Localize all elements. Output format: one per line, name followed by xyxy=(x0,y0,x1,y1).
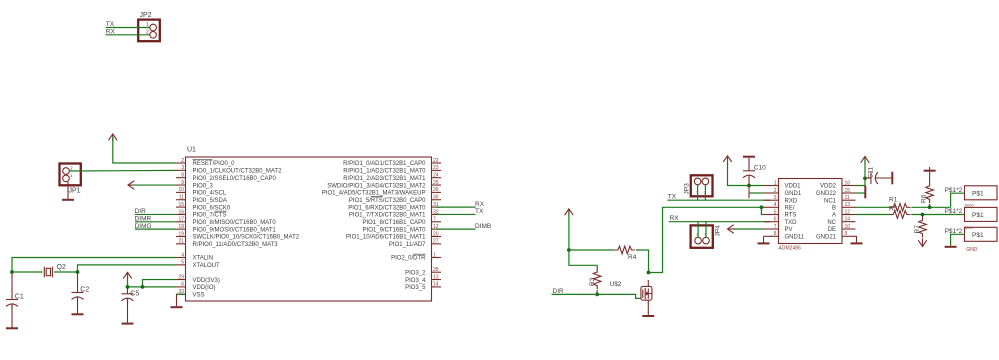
svg-text:JP2: JP2 xyxy=(140,12,152,19)
svg-text:XTALOUT: XTALOUT xyxy=(193,263,221,269)
svg-text:4: 4 xyxy=(774,202,777,208)
VSS ground stub xyxy=(176,294,178,306)
svg-text:14: 14 xyxy=(433,282,439,288)
resistor R4 xyxy=(614,246,636,254)
wire R4 to U$2 drain node xyxy=(636,250,649,273)
svg-text:16: 16 xyxy=(845,180,851,186)
ADM2486 pin 16 VDD2 xyxy=(820,180,856,189)
wire JP1 pin 2 to U1 PIO0_1 xyxy=(70,169,177,172)
U1 pin 5 XTALOUT xyxy=(176,260,220,269)
wire TX from U1 xyxy=(436,213,476,215)
svg-text:27: 27 xyxy=(433,239,439,245)
ADM2486 pin 9 GND21 xyxy=(816,231,856,240)
wire DIMB from U1 xyxy=(436,228,476,230)
down arrow supply under R7 xyxy=(918,239,927,247)
svg-text:RX: RX xyxy=(670,215,680,222)
svg-text:P$1: P$1 xyxy=(972,232,984,239)
ground under C5 xyxy=(122,323,134,325)
U1 pin 22 R/PIO1_0/AD1/CT32B1_CAP0 xyxy=(343,158,441,167)
svg-text:R/PIO1_2/AD3/CT32B1_MAT1: R/PIO1_2/AD3/CT32B1_MAT1 xyxy=(343,176,426,182)
svg-text:PIO3_5: PIO3_5 xyxy=(405,285,426,291)
svg-text:R1: R1 xyxy=(889,196,898,203)
svg-text:22: 22 xyxy=(433,158,439,164)
junction R4 left node xyxy=(567,248,571,252)
supply VCC arrow at ADM VDD1 xyxy=(723,156,732,164)
wire RX from U1 xyxy=(436,206,476,208)
svg-text:5: 5 xyxy=(181,260,184,266)
U1 pin 33 VSS xyxy=(176,289,205,298)
svg-text:R/PIO1_1/AD2/CT32B1_MAT0: R/PIO1_1/AD2/CT32B1_MAT0 xyxy=(343,169,426,175)
svg-text:PIO2_0/DTR: PIO2_0/DTR xyxy=(391,256,426,262)
ADM2486 pin 1 VDD1 xyxy=(764,180,802,189)
IC U1 LPC1114 body xyxy=(186,147,432,302)
off-page arrow at ADM PV xyxy=(728,225,736,234)
svg-text:26: 26 xyxy=(433,187,439,193)
junction R7 top xyxy=(921,213,925,217)
svg-text:30: 30 xyxy=(433,195,439,201)
U1 pin 29 VDD(3V3) xyxy=(176,274,220,283)
U1 pin 1 PIO2_0/DTR xyxy=(391,252,441,261)
svg-text:PIO1_6/RXD/CT32B0_MAT0: PIO1_6/RXD/CT32B0_MAT0 xyxy=(348,205,426,211)
ground bar at ADM GND22 xyxy=(864,186,866,199)
svg-text:PIO0_2/SSEL0/CT16B0_CAP0: PIO0_2/SSEL0/CT16B0_CAP0 xyxy=(193,176,277,182)
U1 pin 2 RESET/PIO0_0 xyxy=(176,158,235,167)
wire to crystal Q2 left xyxy=(12,271,43,273)
junction VDD tie xyxy=(141,285,145,289)
svg-text:ADM2486: ADM2486 xyxy=(779,246,801,252)
ADM2486 pin 3 RXD xyxy=(764,195,798,204)
svg-text:GND: GND xyxy=(966,247,978,253)
svg-text:SWDIO/PIO1_3/AD4/CT32B1_MAT2: SWDIO/PIO1_3/AD4/CT32B1_MAT2 xyxy=(327,183,426,189)
supply VCC arrow at R4 xyxy=(565,209,574,217)
svg-text:RXD: RXD xyxy=(785,198,798,204)
svg-text:20: 20 xyxy=(433,231,439,237)
svg-text:2: 2 xyxy=(181,158,184,164)
svg-text:C10: C10 xyxy=(754,165,766,172)
capacitor C5 xyxy=(122,290,140,303)
svg-text:VSS: VSS xyxy=(193,292,205,298)
wire VCC to C11 node xyxy=(864,159,866,178)
transistor U$2 (n-MOSFET) xyxy=(610,280,652,315)
U1 pin 10 PIO0_4/SCL xyxy=(176,187,227,196)
wire to crystal Q2 right xyxy=(54,271,78,273)
wire U1 XTALIN to crystal xyxy=(12,258,176,273)
svg-text:3: 3 xyxy=(181,165,184,171)
svg-text:PIO0_9/MOSI0/CT16B0_MAT1: PIO0_9/MOSI0/CT16B0_MAT1 xyxy=(193,227,277,233)
wire ADM A to R5 xyxy=(856,214,890,216)
wire TX to JP2 pin 1 xyxy=(106,27,150,29)
svg-text:R4: R4 xyxy=(628,254,637,261)
ground right of C11 (rotated) xyxy=(891,172,893,185)
U1 pin 21 R/PIO0_11/AD0/CT32B0_MAT3 xyxy=(176,239,278,248)
wire DIR node to U$2 gate xyxy=(597,294,640,298)
wire drain node up to RE/RTS net xyxy=(649,207,663,273)
U1 pin 8 PIO0_2/SSEL0/CT16B0_CAP0 xyxy=(176,173,277,182)
wire P$1 bottom to ground xyxy=(951,234,965,246)
connector JP1 xyxy=(60,164,81,195)
svg-text:6: 6 xyxy=(181,282,184,288)
svg-text:SWCLK/PIO0_10/SCK0/CT16B0_MAT2: SWCLK/PIO0_10/SCK0/CT16B0_MAT2 xyxy=(193,235,300,241)
U1 pin 6 VDD(IO) xyxy=(176,282,216,291)
supply VCC arrow for U1 RESET xyxy=(109,134,118,142)
connector P$1 top (DMX out 1) xyxy=(965,186,998,200)
svg-text:DIMB: DIMB xyxy=(475,223,491,230)
resistor R6 xyxy=(929,172,931,182)
U1 pin 19 SWCLK/PIO0_10/SCK0/CT16B0_MAT2 xyxy=(176,231,300,240)
svg-text:RE/: RE/ xyxy=(785,206,795,212)
resistor R5 xyxy=(889,211,911,219)
svg-text:DE: DE xyxy=(828,227,836,233)
wire RX to JP2 pin 2 xyxy=(106,34,150,36)
ADM2486 pin 8 GND11 xyxy=(764,231,805,240)
svg-text:PIO1_9/CT16B1_MAT0: PIO1_9/CT16B1_MAT0 xyxy=(363,227,427,233)
svg-text:11: 11 xyxy=(179,195,184,201)
svg-text:R6: R6 xyxy=(921,194,928,203)
ADM2486 pin 5 RTS xyxy=(764,209,797,218)
wire R1 to DMX+ node xyxy=(911,206,950,208)
svg-text:7: 7 xyxy=(433,217,436,223)
ground under U1 VSS xyxy=(171,306,183,308)
GND21 stub xyxy=(856,236,857,242)
off-page arrow at U1 PIO0_3 xyxy=(128,181,136,190)
wire down to R3 xyxy=(569,250,597,268)
junction C10 node xyxy=(747,184,751,188)
svg-text:10: 10 xyxy=(178,187,184,193)
U1 pin 30 PIO1_5/RTS/CT32B0_CAP0 xyxy=(349,195,441,204)
U1 pin 26 PIO1_4/AD5/CT32B1_MAT3/WAKEUP xyxy=(322,187,441,196)
svg-text:13: 13 xyxy=(433,274,439,280)
svg-text:VDD(IO): VDD(IO) xyxy=(193,285,216,291)
svg-text:VDD1: VDD1 xyxy=(785,184,802,190)
wire TX to ADM2486 RXD xyxy=(667,199,770,201)
wire JP3 pin 1 stub xyxy=(697,185,699,201)
svg-text:C1: C1 xyxy=(15,294,24,301)
svg-text:PIO0_4/SCL: PIO0_4/SCL xyxy=(193,191,227,197)
svg-text:GND22: GND22 xyxy=(816,191,837,197)
svg-text:23: 23 xyxy=(433,165,439,171)
svg-text:TXD: TXD xyxy=(785,220,798,226)
svg-text:R/PIO0_11/AD0/CT32B0_MAT3: R/PIO0_11/AD0/CT32B0_MAT3 xyxy=(193,242,279,248)
svg-text:JP1: JP1 xyxy=(69,188,81,195)
svg-text:VDD2: VDD2 xyxy=(820,184,837,190)
U1 pin 32 PIO1_7/TXD/CT32B0_MAT1 xyxy=(349,209,441,218)
svg-text:12: 12 xyxy=(845,209,851,215)
crystal Q2 xyxy=(44,264,66,278)
ground under ADM GND11 xyxy=(758,242,770,244)
svg-text:GND11: GND11 xyxy=(785,235,805,241)
svg-text:PIO3_2: PIO3_2 xyxy=(405,270,426,276)
connector P$1 middle (DMX out 2) xyxy=(965,207,998,221)
capacitor C5 lead xyxy=(127,287,129,293)
wire DIMG to U1 xyxy=(135,228,176,230)
svg-text:TX: TX xyxy=(475,208,484,215)
svg-text:GND21: GND21 xyxy=(816,235,837,241)
svg-text:PIO1_8/CT16B1_CAP0: PIO1_8/CT16B1_CAP0 xyxy=(362,220,426,226)
svg-text:P$1: P$1 xyxy=(972,191,984,198)
junction crystal right node xyxy=(76,270,80,274)
svg-text:2: 2 xyxy=(774,188,777,194)
svg-text:4: 4 xyxy=(181,252,184,258)
svg-text:C5: C5 xyxy=(130,290,139,297)
supply bar above R6 xyxy=(924,167,936,171)
connector JP2 xyxy=(138,12,160,41)
svg-text:16: 16 xyxy=(178,209,184,215)
svg-text:PIO1_4/AD5/CT32B1_MAT3/WAKEUP: PIO1_4/AD5/CT32B1_MAT3/WAKEUP xyxy=(322,191,426,197)
wire ADM B to R1 xyxy=(856,206,890,208)
resistor R1 xyxy=(889,204,911,212)
ADM2486 pin 10 DE xyxy=(828,224,856,233)
U1 pin 31 PIO1_6/RXD/CT32B0_MAT0 xyxy=(348,202,441,211)
connector P$1 bottom (GND) xyxy=(965,227,998,241)
svg-text:U1: U1 xyxy=(187,147,196,154)
svg-text:RESET/PIO0_0: RESET/PIO0_0 xyxy=(193,161,236,167)
ADM2486 pin 4 RE/ xyxy=(764,202,795,211)
capacitor C10 xyxy=(743,157,766,185)
svg-text:21: 21 xyxy=(178,239,184,245)
U1 pin 14 PIO3_5 xyxy=(405,282,441,291)
U1 pin 25 SWDIO/PIO1_3/AD4/CT32B1_MAT2 xyxy=(327,180,441,189)
U1 pin 9 PIO0_3 xyxy=(176,180,214,189)
capacitor C2 xyxy=(72,287,90,303)
wire VCC to C5 node xyxy=(127,275,129,287)
svg-text:TX: TX xyxy=(668,194,677,201)
svg-text:PIO0_1/CLKOUT/CT32B0_MAT2: PIO0_1/CLKOUT/CT32B0_MAT2 xyxy=(193,169,283,175)
wire DIR xyxy=(552,293,598,295)
svg-text:15: 15 xyxy=(845,188,851,194)
U1 pin 24 R/PIO1_2/AD3/CT32B1_MAT1 xyxy=(343,173,441,182)
wire VCC to ADM VDD1 xyxy=(728,158,764,185)
GND11 stub xyxy=(763,236,765,242)
svg-text:JP3: JP3 xyxy=(684,183,691,195)
svg-text:PIO0_7/CTS: PIO0_7/CTS xyxy=(193,213,227,219)
svg-text:8: 8 xyxy=(181,173,184,179)
svg-text:14: 14 xyxy=(845,217,851,223)
ADM2486 pin 2 GND1 xyxy=(764,188,802,197)
capacitor C2 lead xyxy=(77,273,79,293)
wire DIR to U1 xyxy=(135,213,176,215)
junction U$2 drain node xyxy=(647,271,651,275)
U1 pin 11 PIO0_5/SDA xyxy=(176,195,227,204)
wire VCC to U1 RESET xyxy=(113,137,176,164)
svg-text:1: 1 xyxy=(433,252,436,258)
wire ADM VDD2 up xyxy=(856,178,866,185)
U1 pin 13 PIO3_4 xyxy=(405,274,441,283)
capacitor C1 lead xyxy=(11,273,13,300)
U1 pin 18 PIO0_9/MOSI0/CT16B0_MAT1 xyxy=(176,224,276,233)
wire JP4 pin stub b xyxy=(705,222,707,238)
svg-text:P$1: P$1 xyxy=(972,212,984,219)
connector JP3 xyxy=(684,175,713,196)
svg-text:VDD(3V3): VDD(3V3) xyxy=(193,278,220,284)
GND1 stub wire xyxy=(748,186,750,198)
ADM2486 pin 7 PV xyxy=(764,224,793,233)
wire RX to ADM2486 TXD xyxy=(669,221,770,223)
wire U1 XTALOUT to crystal xyxy=(78,265,177,272)
svg-text:PIO3_4: PIO3_4 xyxy=(405,278,426,284)
wire DMX+ node to P$1 top xyxy=(951,193,965,207)
svg-text:18: 18 xyxy=(178,224,184,230)
junction R6 bottom xyxy=(928,205,932,209)
svg-text:7: 7 xyxy=(774,224,777,230)
supply VCC arrow at ADM VDD2 xyxy=(861,157,870,165)
svg-text:1: 1 xyxy=(774,180,777,186)
svg-text:R7: R7 xyxy=(914,225,921,234)
svg-text:A: A xyxy=(832,213,836,219)
U1 pin 15 PIO0_6/SCK0 xyxy=(176,202,231,211)
JP1 pin 1 ground stub xyxy=(67,182,69,199)
svg-text:9: 9 xyxy=(845,231,848,237)
wire VCC down to R4 node xyxy=(568,211,570,250)
svg-text:6: 6 xyxy=(774,217,777,223)
U1 pin 28 PIO3_2 xyxy=(405,267,441,276)
svg-text:9: 9 xyxy=(181,180,184,186)
supply VCC arrow at C5 xyxy=(123,272,132,280)
wire U1 VDD(IO) xyxy=(128,286,177,288)
svg-text:8: 8 xyxy=(774,231,777,237)
wire DIMR to U1 xyxy=(135,221,176,223)
svg-text:PIO1_10/AD6/CT16B1_MAT1: PIO1_10/AD6/CT16B1_MAT1 xyxy=(346,235,426,241)
resistor R6 body xyxy=(926,182,934,204)
resistor R3 xyxy=(593,268,601,290)
U1 pin 3 PIO0_1/CLKOUT/CT32B0_MAT2 xyxy=(176,165,282,174)
wire JP4 pin stub a xyxy=(697,222,699,238)
ground under P$1 bottom xyxy=(945,246,957,248)
ADM2486 pin 12 A xyxy=(832,209,856,218)
svg-text:JP4: JP4 xyxy=(715,225,722,237)
svg-text:Q2: Q2 xyxy=(57,264,66,271)
U1 pin 20 PIO1_10/AD6/CT16B1_MAT1 xyxy=(346,231,441,240)
ADM2486 pin 11 NC1 xyxy=(824,195,856,204)
ground under C1 xyxy=(6,327,18,329)
U1 pin 27 PIO1_11/AD7 xyxy=(389,239,441,248)
svg-text:17: 17 xyxy=(178,217,184,223)
wire U1 VSS xyxy=(177,293,186,295)
svg-text:PIO0_8/MISO0/CT16B0_MAT0: PIO0_8/MISO0/CT16B0_MAT0 xyxy=(193,220,277,226)
svg-text:3: 3 xyxy=(774,195,777,201)
svg-text:XTALIN: XTALIN xyxy=(193,256,214,262)
resistor R7 body xyxy=(919,216,927,238)
ADM2486 pin 15 GND22 xyxy=(816,188,856,197)
wire JP3 pin 2 stub xyxy=(704,185,706,201)
U1 pin 4 XTALIN xyxy=(176,252,213,261)
ground under ADM GND21 xyxy=(851,242,863,244)
svg-text:PIO0_6/SCK0: PIO0_6/SCK0 xyxy=(193,205,231,211)
junction RE/RTS tie xyxy=(760,205,764,209)
svg-text:5: 5 xyxy=(774,209,777,215)
svg-text:24: 24 xyxy=(433,173,439,179)
wire ADM GND1 xyxy=(749,192,764,194)
svg-text:PV: PV xyxy=(785,227,793,233)
junction crystal left node xyxy=(10,270,14,274)
svg-text:PIO1_7/TXD/CT32B0_MAT1: PIO1_7/TXD/CT32B0_MAT1 xyxy=(349,213,426,219)
wire R3 to DIR net xyxy=(596,290,598,294)
wire U1 VDD(3V3) xyxy=(143,280,177,287)
U1 pin 17 PIO0_8/MISO0/CT16B0_MAT0 xyxy=(176,217,276,226)
svg-text:RTS: RTS xyxy=(785,213,797,219)
svg-text:NC1: NC1 xyxy=(824,198,837,204)
svg-text:P$1*2: P$1*2 xyxy=(945,208,963,215)
capacitor C11 xyxy=(866,167,892,184)
svg-text:DMX+: DMX+ xyxy=(965,203,975,207)
svg-text:C2: C2 xyxy=(80,287,89,294)
wire RE to RTS tie xyxy=(761,207,763,214)
wire ADM GND22 xyxy=(856,192,865,194)
svg-text:PIO1_5/RTS/CT32B0_CAP0: PIO1_5/RTS/CT32B0_CAP0 xyxy=(349,198,426,204)
svg-text:PIO0_3: PIO0_3 xyxy=(193,183,214,189)
junction C11 node xyxy=(863,176,867,180)
svg-text:RX: RX xyxy=(475,201,485,208)
svg-text:25: 25 xyxy=(433,180,439,186)
svg-text:19: 19 xyxy=(178,231,184,237)
connector JP4 xyxy=(691,225,722,248)
svg-text:DMX-: DMX- xyxy=(965,226,975,230)
capacitor C1 xyxy=(6,294,24,310)
svg-text:R3: R3 xyxy=(589,277,596,286)
ADM2486 pin 13 B xyxy=(832,202,856,211)
svg-text:13: 13 xyxy=(845,202,851,208)
svg-text:B: B xyxy=(832,206,836,212)
U1 pin 16 PIO0_7/CTS xyxy=(176,209,227,218)
wire to U1 PIO0_3 xyxy=(134,184,177,186)
svg-text:10: 10 xyxy=(845,224,851,230)
junction DIR/R3 node xyxy=(595,293,599,297)
U1 pin 12 PIO1_9/CT16B1_MAT0 xyxy=(363,224,441,233)
svg-text:28: 28 xyxy=(433,267,439,273)
IC ADM2486 body xyxy=(779,179,843,252)
svg-text:NC: NC xyxy=(827,220,836,226)
svg-text:GND1: GND1 xyxy=(785,191,802,197)
svg-text:11: 11 xyxy=(845,195,850,201)
wire ADM PV xyxy=(733,228,764,230)
svg-text:PIO0_5/SDA: PIO0_5/SDA xyxy=(193,198,227,204)
svg-text:PIO1_11/AD7: PIO1_11/AD7 xyxy=(389,242,426,248)
ADM2486 pin 6 TXD xyxy=(764,217,798,226)
svg-text:29: 29 xyxy=(178,274,184,280)
wire to ADM RE/ xyxy=(663,206,764,208)
junction C5 node xyxy=(126,285,130,289)
wire R5 to P$1 middle xyxy=(911,214,964,216)
svg-text:U$2: U$2 xyxy=(610,281,622,288)
ground under C2 xyxy=(72,313,84,315)
wire to R4 xyxy=(569,249,614,251)
ground under U$2 source xyxy=(642,315,654,317)
svg-text:15: 15 xyxy=(178,202,184,208)
ground under JP1 xyxy=(62,199,74,201)
ADM2486 pin 14 NC xyxy=(827,217,855,226)
U1 pin 7 PIO1_8/CT16B1_CAP0 xyxy=(362,217,441,226)
svg-text:R/PIO1_0/AD1/CT32B1_CAP0: R/PIO1_0/AD1/CT32B1_CAP0 xyxy=(343,161,426,167)
U1 pin 23 R/PIO1_1/AD2/CT32B1_MAT0 xyxy=(343,165,441,174)
